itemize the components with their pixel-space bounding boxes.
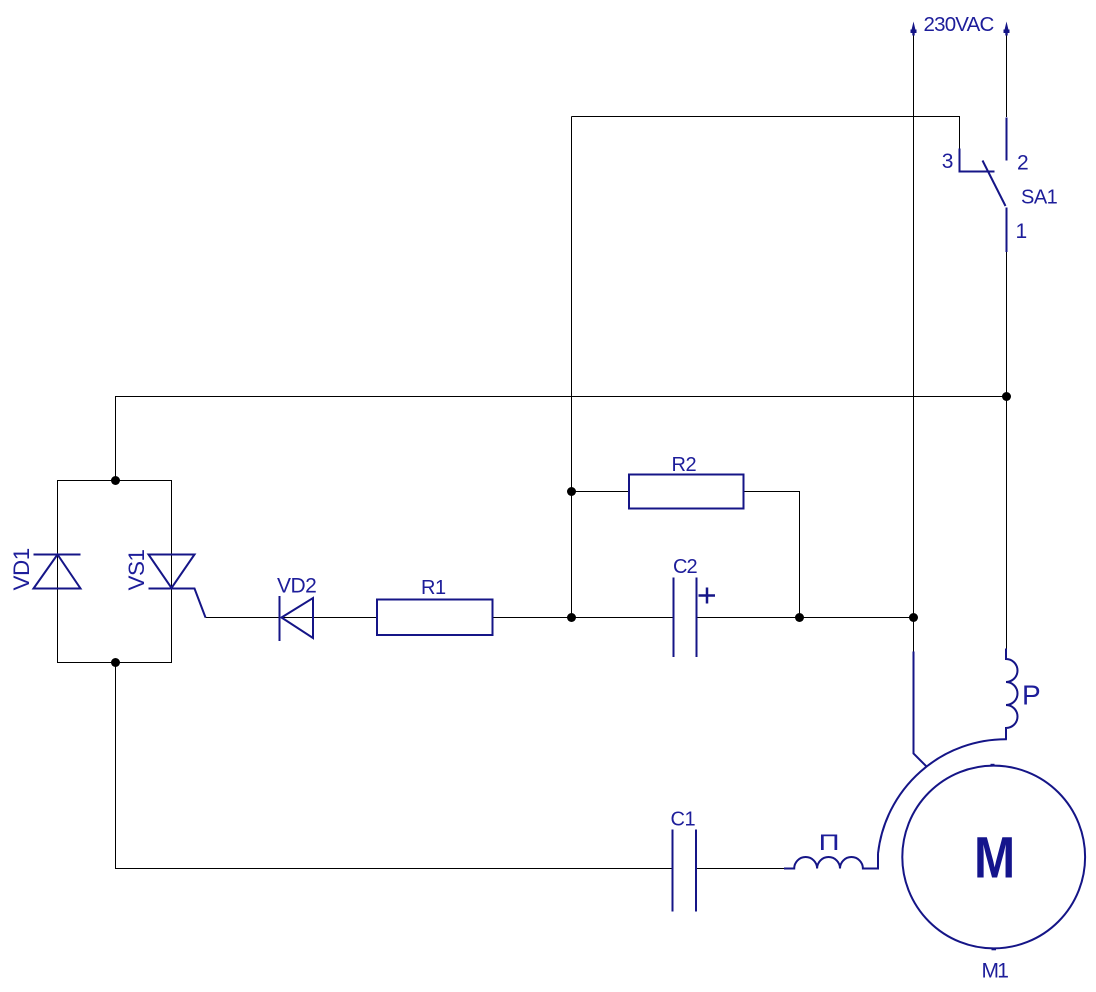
- svg-text:M: M: [974, 826, 1015, 891]
- svg-text:П: П: [819, 831, 839, 855]
- svg-text:2: 2: [1017, 152, 1028, 175]
- svg-text:C2: C2: [673, 556, 697, 578]
- svg-text:VD2: VD2: [277, 575, 316, 598]
- svg-text:R1: R1: [421, 577, 446, 599]
- svg-text:VD1: VD1: [9, 548, 34, 590]
- svg-text:1: 1: [1016, 220, 1027, 243]
- svg-text:VS1: VS1: [124, 549, 149, 590]
- svg-text:SA1: SA1: [1021, 187, 1058, 209]
- svg-text:P: P: [1022, 680, 1040, 711]
- svg-text:230VAC: 230VAC: [924, 13, 995, 36]
- svg-text:R2: R2: [672, 454, 697, 476]
- svg-text:C1: C1: [671, 809, 696, 831]
- svg-text:M1: M1: [982, 960, 1009, 983]
- svg-text:3: 3: [942, 150, 953, 173]
